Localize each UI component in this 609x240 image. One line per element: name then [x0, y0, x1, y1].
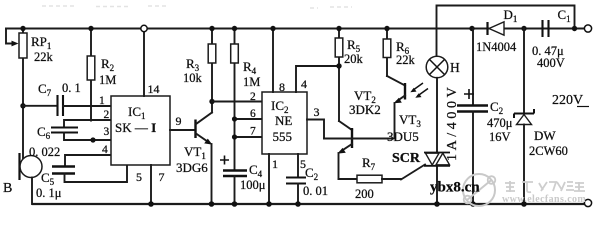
svg-text:4: 4	[102, 144, 108, 156]
svg-text:3: 3	[314, 105, 320, 119]
svg-text:ybx8.cn: ybx8.cn	[430, 180, 480, 196]
node R6 top	[384, 26, 389, 31]
svg-text:0. 01: 0. 01	[303, 184, 328, 198]
svg-text:100μ: 100μ	[240, 178, 266, 192]
watermark logo circle	[463, 174, 495, 206]
svg-text:1M: 1M	[99, 73, 116, 87]
svg-text:8: 8	[279, 80, 285, 94]
svg-text:14: 14	[148, 82, 160, 96]
node C3 bottom	[295, 201, 301, 207]
IC2 pin 3 wire	[307, 105, 324, 139]
IC2 pin 8	[273, 29, 285, 95]
IC1 pin 2 label	[104, 109, 110, 121]
svg-text:B: B	[3, 181, 12, 196]
watermark elecfans chinese	[505, 181, 585, 192]
node R3/pin2 junction	[209, 99, 214, 104]
terminal bottom right	[584, 199, 591, 206]
zener diode DW 2CW60	[514, 29, 568, 205]
svg-text:555: 555	[273, 129, 293, 144]
svg-text:1N4004: 1N4004	[476, 40, 517, 54]
node D1 right junction	[521, 26, 526, 31]
svg-text:2: 2	[250, 91, 256, 103]
node IC2 pin1 bottom	[266, 201, 272, 207]
node C4 bottom	[232, 201, 238, 207]
wire IC2 pin6	[235, 118, 263, 120]
svg-text:SK — I: SK — I	[115, 120, 156, 135]
svg-text:3: 3	[104, 126, 110, 138]
capacitor C2 470u	[457, 29, 513, 205]
svg-text:1A/400V: 1A/400V	[445, 84, 460, 161]
IC1 SK-I	[111, 96, 170, 165]
svg-text:200: 200	[355, 187, 374, 201]
node pin8 top	[270, 26, 275, 31]
capacitor C6	[29, 120, 111, 159]
svg-text:DW: DW	[534, 128, 556, 143]
resistor R3	[183, 29, 216, 86]
lamp H	[426, 56, 460, 78]
svg-text:3DG6: 3DG6	[176, 160, 208, 175]
scan noise top	[42, 6, 352, 8]
IC2 pin 4	[296, 66, 339, 92]
svg-text:1: 1	[99, 95, 105, 107]
node loop junction	[572, 26, 577, 31]
node pin7 bottom	[148, 201, 154, 207]
wire top rail	[6, 28, 584, 30]
potentiometer RP1	[6, 29, 54, 161]
IC1 pin 1 label	[99, 95, 105, 107]
node mic/C7 junction	[20, 103, 25, 108]
node R5/pin4 junction	[336, 63, 341, 68]
resistor R5	[335, 29, 363, 122]
resistor R6	[383, 29, 415, 77]
resistor R7 200	[339, 155, 426, 201]
node R3 top	[209, 26, 214, 31]
svg-text:www.elecfans.com: www.elecfans.com	[502, 194, 586, 205]
svg-text:H: H	[450, 60, 460, 75]
IC1 pin 9 wire	[170, 114, 196, 130]
svg-text:1: 1	[272, 157, 278, 171]
capacitor C3 0.01	[286, 165, 328, 204]
wire IC2 pin2	[212, 101, 262, 103]
node C2 bottom	[470, 201, 476, 207]
svg-text:1M: 1M	[243, 75, 260, 89]
svg-text:9: 9	[176, 114, 182, 128]
phototransistor VT3 3DU5	[387, 76, 428, 144]
svg-text:4: 4	[301, 77, 307, 91]
IC2 NE555	[262, 92, 307, 154]
watermark ybx8.cn	[430, 180, 480, 196]
svg-text:3DK2: 3DK2	[349, 102, 381, 117]
wire IC2 pin7	[235, 136, 263, 138]
IC1 pin 14	[144, 32, 160, 96]
svg-text:400V: 400V	[537, 56, 565, 70]
node R4 top	[232, 26, 237, 31]
svg-text:3DU5: 3DU5	[387, 129, 419, 144]
svg-text:SCR: SCR	[392, 151, 421, 166]
svg-text:220V: 220V	[552, 93, 583, 108]
svg-text:0. 022: 0. 022	[29, 145, 60, 159]
svg-text:2: 2	[104, 109, 110, 121]
resistor R2	[87, 29, 116, 121]
svg-text:7: 7	[250, 126, 256, 138]
svg-text:2CW60: 2CW60	[529, 144, 568, 158]
IC1 pin 3 label	[104, 126, 110, 138]
IC1 pin 7	[151, 165, 165, 204]
label 220V	[552, 93, 589, 108]
microphone B	[3, 153, 42, 204]
node pin7 junction	[232, 134, 237, 139]
resistor R4	[231, 29, 261, 171]
capacitor C7	[23, 81, 111, 116]
svg-text:7: 7	[159, 170, 165, 184]
svg-text:20k: 20k	[344, 52, 364, 66]
capacitor C4 100u	[220, 156, 266, 205]
label 1A/400V	[445, 84, 460, 161]
node DW bottom	[521, 201, 527, 207]
watermark elecfans url	[502, 194, 586, 205]
IC2 pin 7 label	[250, 126, 256, 138]
IC1 pin 4 label	[102, 144, 108, 156]
svg-text:0. 1: 0. 1	[62, 81, 81, 95]
svg-text:NE: NE	[275, 113, 292, 128]
wire top loop	[437, 6, 575, 58]
svg-text:5: 5	[136, 170, 142, 184]
diode D1 1N4004	[476, 7, 517, 54]
terminal top right	[584, 25, 591, 32]
svg-text:470μ: 470μ	[487, 116, 513, 130]
capacitor C1 0.47u	[532, 7, 571, 70]
transistor VT1 3DG6	[176, 63, 212, 204]
node pin6 junction	[232, 116, 237, 121]
IC2 pin 1	[269, 154, 278, 204]
node C6/pin3 junction	[90, 137, 95, 142]
node R5 top	[336, 26, 341, 31]
svg-text:6: 6	[250, 108, 256, 120]
IC2 pin 2 label	[250, 91, 256, 103]
node A (RP1 top junction)	[20, 26, 25, 31]
transistor VT2 3DK2	[324, 88, 394, 179]
wire bottom rail	[33, 203, 584, 205]
svg-text:0. 1μ: 0. 1μ	[36, 186, 62, 200]
IC2 pin 5	[298, 154, 306, 178]
svg-text:22k: 22k	[34, 50, 54, 64]
node SCR bottom	[434, 201, 440, 207]
capacitor C5	[36, 155, 127, 200]
IC2 pin 6 label	[250, 108, 256, 120]
IC1 pin 5	[136, 170, 142, 184]
node ring junction pin14	[141, 25, 147, 31]
SCR triac	[392, 78, 450, 204]
node R2 top	[88, 26, 93, 31]
node D1 left junction	[469, 26, 474, 31]
svg-text:10k: 10k	[183, 71, 203, 85]
svg-text:16V: 16V	[489, 130, 511, 144]
svg-text:22k: 22k	[396, 53, 416, 67]
node VT1 emitter bottom	[209, 201, 215, 207]
